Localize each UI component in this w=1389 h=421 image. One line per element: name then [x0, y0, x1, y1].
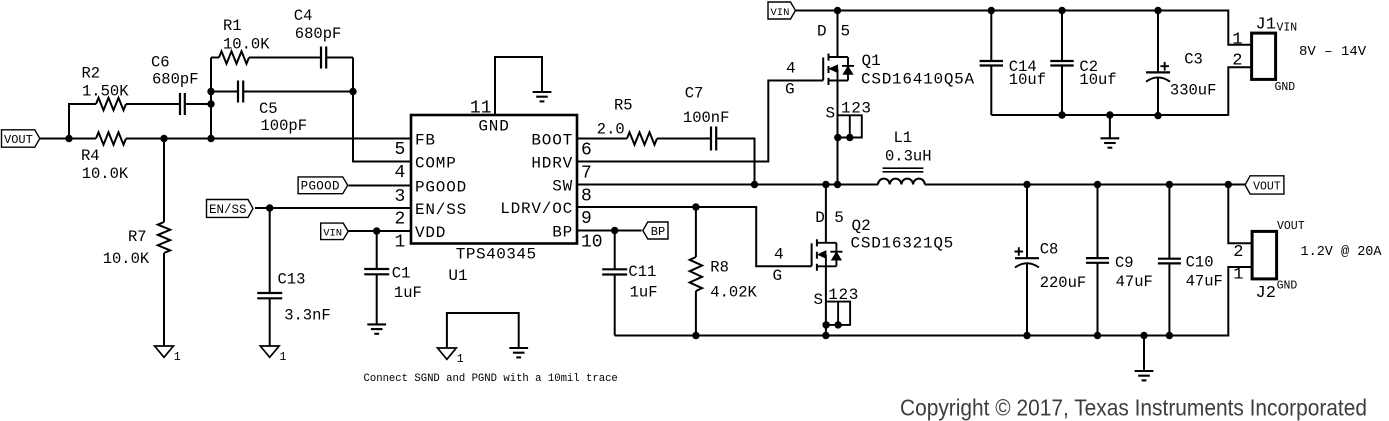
svg-text:5: 5: [841, 23, 851, 41]
svg-text:VOUT: VOUT: [1253, 180, 1281, 193]
svg-text:C6: C6: [151, 54, 170, 72]
svg-text:100nF: 100nF: [683, 109, 730, 127]
svg-text:10uf: 10uf: [1079, 71, 1116, 89]
svg-text:2: 2: [1232, 52, 1242, 71]
svg-text:EN/SS: EN/SS: [209, 203, 247, 217]
svg-text:10uf: 10uf: [1009, 71, 1046, 89]
svg-text:FB: FB: [415, 132, 436, 150]
svg-text:6: 6: [581, 141, 592, 161]
svg-text:11: 11: [470, 99, 492, 119]
svg-text:1: 1: [1232, 30, 1242, 49]
svg-text:VIN: VIN: [1277, 22, 1298, 35]
svg-text:4: 4: [786, 60, 796, 78]
svg-text:5: 5: [834, 209, 844, 227]
svg-text:PGOOD: PGOOD: [415, 179, 467, 197]
svg-text:3: 3: [394, 187, 405, 207]
svg-text:Q1: Q1: [862, 52, 881, 70]
svg-text:3.3nF: 3.3nF: [284, 307, 331, 325]
svg-text:Copyright © 2017, Texas Instru: Copyright © 2017, Texas Instruments Inco…: [900, 395, 1367, 421]
svg-text:GND: GND: [1275, 81, 1296, 94]
svg-text:S: S: [814, 291, 824, 309]
svg-text:680pF: 680pF: [152, 70, 199, 88]
svg-text:4.02K: 4.02K: [710, 284, 757, 302]
svg-text:CSD16410Q5A: CSD16410Q5A: [861, 71, 975, 89]
svg-text:Connect SGND and PGND with a 1: Connect SGND and PGND with a 10mil trace: [364, 373, 618, 385]
svg-text:47uF: 47uF: [1186, 272, 1223, 290]
svg-text:S: S: [826, 105, 836, 123]
svg-text:U1: U1: [448, 267, 467, 285]
svg-text:R5: R5: [614, 96, 633, 114]
svg-text:VOUT: VOUT: [4, 133, 33, 147]
svg-text:C5: C5: [259, 100, 278, 118]
svg-text:5: 5: [394, 140, 405, 160]
svg-text:C10: C10: [1186, 253, 1214, 271]
svg-text:C8: C8: [1040, 240, 1059, 258]
svg-text:2: 2: [1233, 243, 1243, 262]
svg-text:4: 4: [394, 163, 405, 183]
svg-text:VIN: VIN: [323, 228, 342, 240]
svg-text:LDRV/OC: LDRV/OC: [500, 200, 573, 218]
svg-text:G: G: [785, 81, 795, 99]
svg-text:GND: GND: [1277, 280, 1298, 293]
svg-text:680pF: 680pF: [295, 25, 342, 43]
svg-text:10.0K: 10.0K: [103, 250, 150, 268]
svg-text:R2: R2: [82, 64, 101, 82]
svg-text:1: 1: [457, 353, 464, 366]
svg-text:EN/SS: EN/SS: [415, 201, 467, 219]
svg-text:Q2: Q2: [852, 217, 871, 235]
svg-text:VOUT: VOUT: [1277, 220, 1305, 233]
svg-text:GND: GND: [478, 118, 509, 136]
svg-text:R1: R1: [223, 17, 242, 35]
svg-text:D: D: [815, 209, 825, 227]
svg-text:7: 7: [581, 164, 592, 184]
svg-text:C4: C4: [294, 7, 313, 25]
svg-text:SW: SW: [552, 178, 573, 196]
svg-text:R8: R8: [710, 258, 729, 276]
svg-text:1uF: 1uF: [394, 284, 422, 302]
svg-text:8V – 14V: 8V – 14V: [1299, 44, 1367, 60]
svg-text:0.3uH: 0.3uH: [885, 148, 932, 166]
svg-text:2: 2: [394, 210, 405, 230]
svg-text:VIN: VIN: [771, 7, 790, 19]
svg-text:TPS40345: TPS40345: [456, 246, 537, 264]
svg-text:R7: R7: [128, 228, 147, 246]
svg-text:C11: C11: [628, 263, 656, 281]
svg-text:220uF: 220uF: [1040, 274, 1087, 292]
svg-text:D: D: [817, 23, 827, 41]
svg-text:PGOOD: PGOOD: [301, 180, 340, 194]
svg-text:1.2V @ 20A: 1.2V @ 20A: [1301, 245, 1383, 260]
svg-text:L1: L1: [894, 129, 913, 147]
svg-text:1: 1: [1233, 266, 1243, 285]
svg-text:J2: J2: [1256, 284, 1276, 303]
svg-text:1: 1: [174, 351, 181, 364]
svg-text:100pF: 100pF: [261, 117, 308, 135]
svg-text:CSD16321Q5: CSD16321Q5: [851, 235, 955, 253]
svg-text:10.0K: 10.0K: [223, 36, 270, 54]
svg-text:10.0K: 10.0K: [82, 165, 129, 183]
svg-text:47uF: 47uF: [1116, 273, 1153, 291]
svg-text:123: 123: [828, 286, 859, 304]
svg-text:BOOT: BOOT: [531, 132, 573, 150]
svg-text:2.0: 2.0: [597, 121, 625, 139]
svg-text:COMP: COMP: [415, 155, 457, 173]
svg-text:C3: C3: [1184, 50, 1203, 68]
svg-text:1: 1: [394, 233, 405, 253]
svg-text:C13: C13: [278, 271, 306, 289]
svg-text:HDRV: HDRV: [531, 155, 573, 173]
svg-text:C7: C7: [685, 85, 704, 103]
svg-text:9: 9: [581, 209, 592, 229]
svg-text:8: 8: [581, 187, 592, 207]
svg-text:BP: BP: [552, 224, 573, 242]
svg-text:VDD: VDD: [415, 224, 446, 242]
svg-text:C1: C1: [392, 264, 411, 282]
svg-text:1uF: 1uF: [630, 284, 658, 302]
svg-text:J1: J1: [1256, 16, 1276, 35]
svg-text:10: 10: [581, 233, 603, 253]
svg-text:C9: C9: [1115, 254, 1134, 272]
svg-text:330uF: 330uF: [1170, 82, 1217, 100]
svg-text:4: 4: [774, 246, 784, 264]
svg-text:1: 1: [280, 351, 287, 364]
svg-text:123: 123: [841, 100, 872, 118]
svg-text:BP: BP: [651, 225, 665, 239]
svg-text:1.50K: 1.50K: [82, 82, 129, 100]
svg-text:G: G: [773, 267, 783, 285]
svg-text:R4: R4: [81, 147, 100, 165]
